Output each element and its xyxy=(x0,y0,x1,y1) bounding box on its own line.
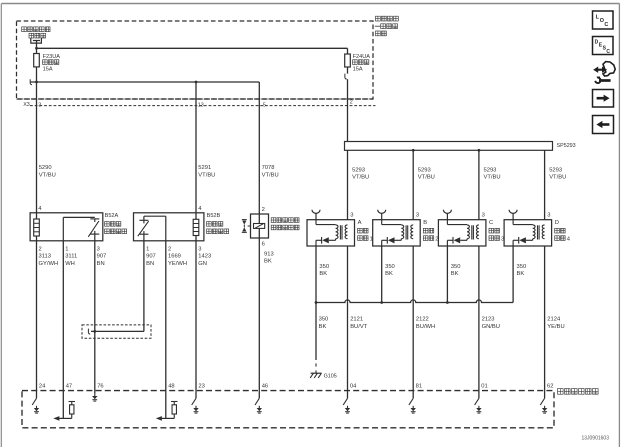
svg-text:BK: BK xyxy=(319,324,327,330)
ECM pin 81 label xyxy=(416,383,422,389)
wire label 5291 VT/BU xyxy=(198,165,215,178)
coil C spark plug xyxy=(443,210,451,220)
oxygen sensor B52A box xyxy=(30,213,103,241)
wire 3111 B52A pin1 to ECM 47 xyxy=(62,241,64,391)
junction dot bus at F23UA xyxy=(35,81,38,84)
coil C diode xyxy=(447,237,460,246)
coil C primary winding xyxy=(477,225,479,239)
svg-text:3: 3 xyxy=(38,103,41,109)
B52A pin 2 label xyxy=(39,247,59,267)
icon next page arrow box xyxy=(593,90,614,108)
ECM pin 46 driver switch to ground xyxy=(255,391,262,414)
ECM pin 62 label xyxy=(547,383,553,389)
fuse F24UA label xyxy=(353,54,371,72)
B52B pin 2 label xyxy=(168,247,187,267)
svg-text:350: 350 xyxy=(319,264,329,270)
svg-text:VT/BU: VT/BU xyxy=(484,174,501,180)
icon LOC box xyxy=(593,11,614,29)
svg-text:15A: 15A xyxy=(353,67,363,73)
svg-text:24: 24 xyxy=(39,383,46,389)
ECM pin 47 input pullup and signal arrow xyxy=(53,391,75,421)
B52B signal inner wire pin2 xyxy=(144,216,166,241)
coil D primary winding xyxy=(542,225,544,239)
ECM pin 04 driver switch to ground xyxy=(343,391,350,414)
fuse F24UA xyxy=(345,54,351,67)
svg-text:15A: 15A xyxy=(43,67,53,73)
wire label 350 BK coil B xyxy=(385,264,395,277)
connector label X3 xyxy=(23,102,30,108)
svg-text:81: 81 xyxy=(416,383,422,389)
pin 2 label valve xyxy=(262,207,265,213)
svg-text:23: 23 xyxy=(198,383,204,389)
svg-text:BU/WH: BU/WH xyxy=(416,324,435,330)
svg-text:350: 350 xyxy=(385,264,395,270)
svg-text:6: 6 xyxy=(262,242,265,248)
valve actuator symbol xyxy=(242,220,251,233)
coil C pin 3 label xyxy=(482,213,485,219)
coil B spark plug xyxy=(378,210,386,220)
icon troubleshooting tool xyxy=(593,62,615,83)
fuse block bus wire xyxy=(30,81,259,83)
splice pack SP5293 bus bar xyxy=(345,142,553,151)
wire coil A control to ECM xyxy=(347,246,349,391)
svg-text:350: 350 xyxy=(319,317,329,323)
ECM pin 24 label xyxy=(39,383,46,389)
svg-text:13: 13 xyxy=(198,103,204,109)
svg-text:D: D xyxy=(555,220,559,226)
coil C label xyxy=(489,220,504,242)
svg-text:YE/BU: YE/BU xyxy=(547,324,564,330)
wire 5293 SP5293 to coil D pin3 xyxy=(544,150,546,219)
wire label 2123 GN/BU xyxy=(482,317,500,330)
ground G105 symbol xyxy=(310,370,321,378)
svg-text:5293: 5293 xyxy=(418,167,431,173)
svg-text:BK: BK xyxy=(451,271,459,277)
svg-text:C: C xyxy=(489,220,493,226)
svg-text:2122: 2122 xyxy=(416,317,429,323)
B52A heater wire through box xyxy=(36,213,38,241)
svg-text:2: 2 xyxy=(168,247,171,253)
wire 350 BK bus to G105 xyxy=(315,303,317,367)
wire 3113 B52A pin2 to ECM 24 xyxy=(36,241,38,391)
svg-text:47: 47 xyxy=(66,383,72,389)
svg-text:5: 5 xyxy=(263,103,266,109)
coil A core xyxy=(340,225,342,239)
ECM pin 24 driver switch to ground xyxy=(32,391,39,414)
svg-text:4: 4 xyxy=(567,236,571,242)
wire 1669 B52B pin2 to ECM 48 xyxy=(165,241,167,391)
wire 350 BK coil C to ground bus xyxy=(446,246,448,303)
pin 4 label B52B xyxy=(198,206,202,212)
X3 pin 13 xyxy=(198,103,204,109)
svg-text:907: 907 xyxy=(97,254,107,260)
valve pin 6 label xyxy=(262,242,265,248)
svg-text:76: 76 xyxy=(97,383,103,389)
svg-text:F24UA: F24UA xyxy=(353,54,371,60)
ECM pin 48 label xyxy=(168,383,174,389)
splice terminal hook xyxy=(88,329,90,334)
junction dot splice 907 xyxy=(93,330,96,333)
B52A signal inner wire pin1 xyxy=(63,217,95,240)
svg-text:04: 04 xyxy=(350,383,357,389)
coil A secondary winding xyxy=(316,220,338,241)
junction dot ground bus coil C xyxy=(446,301,449,304)
wire 907 B52B pin1 to splice xyxy=(91,241,144,332)
wire label 2124 YE/BU xyxy=(547,317,564,330)
B52B label xyxy=(207,213,229,234)
svg-text:O: O xyxy=(600,18,604,24)
wire label 5290 VT/BU xyxy=(39,165,56,178)
coil D pin 3 label xyxy=(547,213,550,219)
svg-text:3111: 3111 xyxy=(65,254,77,260)
wire to fuse F24UA xyxy=(347,48,349,54)
coil D spark plug xyxy=(509,210,517,220)
svg-text:5293: 5293 xyxy=(549,167,562,173)
svg-text:01: 01 xyxy=(481,383,487,389)
B52B heater element xyxy=(193,219,199,235)
B52A pin 3 label xyxy=(97,247,107,267)
coil D label xyxy=(555,220,571,242)
wire label 2121 BU/VT xyxy=(350,317,368,330)
ignition coil D box xyxy=(504,220,551,246)
svg-text:3: 3 xyxy=(97,247,100,253)
B52A heater element xyxy=(34,219,40,236)
B52B pin 3 label xyxy=(198,247,211,267)
svg-text:3: 3 xyxy=(198,247,201,253)
junction dot ground bus coil B xyxy=(380,301,383,304)
wire label 2122 BU/WH xyxy=(416,317,435,330)
wire label 350 BK coil D xyxy=(517,264,527,277)
svg-text:2: 2 xyxy=(39,247,42,253)
coil A pin 3 label xyxy=(350,213,353,219)
wire label 5293 VT/BU coil A xyxy=(352,167,369,180)
wire F24UA down xyxy=(347,67,349,74)
B52B heater wire through box xyxy=(195,213,197,241)
svg-text:VT/BU: VT/BU xyxy=(39,172,56,178)
coil C secondary winding xyxy=(447,220,469,241)
ECM pin 23 driver switch to ground xyxy=(192,391,199,414)
wire 913 BK valve to ECM pin46 xyxy=(258,238,260,391)
coil D diode xyxy=(513,237,526,246)
ECM pin 01 label xyxy=(481,383,487,389)
X3 pin 3 xyxy=(38,103,41,109)
svg-text:3113: 3113 xyxy=(39,254,51,260)
engine control module dashed box xyxy=(22,391,554,428)
svg-text:3: 3 xyxy=(482,213,485,219)
svg-text:1: 1 xyxy=(65,247,68,253)
coil A primary winding xyxy=(345,225,347,239)
coil B diode xyxy=(382,237,395,246)
svg-text:2121: 2121 xyxy=(350,317,363,323)
coil B label xyxy=(423,220,438,242)
B52A label xyxy=(105,213,127,234)
svg-text:GN/BU: GN/BU xyxy=(482,324,500,330)
svg-text:YE/WH: YE/WH xyxy=(168,261,187,267)
fuse block label 保险丝盒—发动机罩下 xyxy=(375,16,399,36)
pin 4 label B52A xyxy=(38,206,42,212)
svg-text:C: C xyxy=(606,49,610,55)
valve solenoid element xyxy=(254,224,265,229)
wire 5291 branch down xyxy=(195,82,197,213)
svg-text:2123: 2123 xyxy=(482,317,495,323)
svg-text:BN: BN xyxy=(146,261,154,267)
page left border xyxy=(0,4,2,447)
svg-text:BN: BN xyxy=(97,261,105,267)
svg-text:3: 3 xyxy=(547,213,550,219)
bus terminal hook under F24UA xyxy=(345,74,347,79)
intake manifold solenoid valve box xyxy=(251,214,269,238)
ECM pin 04 label xyxy=(350,383,357,389)
svg-text:62: 62 xyxy=(547,383,553,389)
svg-text:1669: 1669 xyxy=(168,254,181,260)
wire 1423 B52B pin3 to ECM 23 xyxy=(195,241,197,391)
ECM label 发动机控制模块 xyxy=(558,389,599,395)
wire 5293 SP5293 to coil A pin3 xyxy=(347,150,349,219)
svg-text:350: 350 xyxy=(451,264,461,270)
valve wire through box xyxy=(258,214,260,238)
junction dot ground bus coil A xyxy=(315,301,318,304)
wire F23UA to bus xyxy=(36,67,38,82)
fuse F23UA xyxy=(34,54,40,67)
svg-text:VT/BU: VT/BU xyxy=(262,172,279,178)
wire 5290 X3 to sensor B52A pin4 xyxy=(36,82,38,213)
wire label 7078 VT/BU xyxy=(262,165,279,178)
engine control relay label 发动机控制/继电器 xyxy=(22,27,50,38)
svg-text:5293: 5293 xyxy=(352,167,365,173)
wire 7078 bus corner to valve xyxy=(258,82,260,214)
svg-text:B52A: B52A xyxy=(105,213,119,219)
connector X3 lower dashed line xyxy=(30,105,376,107)
svg-text:X3: X3 xyxy=(23,102,30,108)
connector X3 upper dashed line xyxy=(17,98,374,100)
wire 5293 SP5293 to coil B pin3 xyxy=(412,150,414,219)
svg-text:G105: G105 xyxy=(324,373,337,379)
wire 5293 SP5293 to coil C pin3 xyxy=(478,150,480,219)
icon DESC box xyxy=(593,37,614,55)
wire relay output to fuse F24UA xyxy=(37,47,348,49)
wire label 5293 VT/BU coil D xyxy=(549,167,566,180)
svg-text:VT/BU: VT/BU xyxy=(352,174,369,180)
coil A spark plug xyxy=(312,210,320,220)
coil A diode xyxy=(316,237,329,246)
svg-text:WH: WH xyxy=(65,261,75,267)
svg-text:GN: GN xyxy=(198,261,207,267)
svg-text:2: 2 xyxy=(350,100,353,106)
wire 350 BK coil A to ground bus xyxy=(315,246,317,303)
svg-text:350: 350 xyxy=(517,264,527,270)
svg-text:2124: 2124 xyxy=(547,317,561,323)
bus terminal hook left xyxy=(30,79,32,84)
coil D secondary winding xyxy=(513,220,535,241)
ECM pin 81 driver switch to ground xyxy=(409,391,416,414)
icon previous page arrow box xyxy=(593,116,614,134)
coil B secondary winding xyxy=(382,220,404,241)
ignition coil A box xyxy=(307,220,355,246)
svg-text:B52B: B52B xyxy=(207,213,221,219)
svg-text:SP5293: SP5293 xyxy=(557,143,576,149)
coil B core xyxy=(406,225,408,239)
junction dot bus at pin13 branch xyxy=(195,81,198,84)
coil B pin 3 label xyxy=(416,213,419,219)
oxygen sensor B52B box xyxy=(134,213,204,241)
svg-text:4: 4 xyxy=(198,206,202,212)
svg-text:1: 1 xyxy=(146,247,149,253)
ignition coil C box xyxy=(438,220,486,246)
wire label 350 BK coil A xyxy=(319,264,329,277)
junction dot SP5293 out C xyxy=(478,149,481,152)
wire coil B control to ECM xyxy=(412,246,414,391)
svg-text:C: C xyxy=(604,22,608,28)
coil A label xyxy=(358,220,373,242)
ground bus wire 350 BK xyxy=(316,300,513,303)
page top border xyxy=(2,3,620,5)
ECM pin 23 label xyxy=(198,383,204,389)
wire label 350 BK coil C xyxy=(451,264,461,277)
svg-text:BK: BK xyxy=(385,271,393,277)
document number 13J0901603 xyxy=(581,436,609,442)
ECM pin 48 input pullup and signal arrow xyxy=(156,391,178,421)
coil C core xyxy=(472,225,474,239)
svg-text:48: 48 xyxy=(168,383,174,389)
svg-text:VT/BU: VT/BU xyxy=(549,174,566,180)
svg-text:4: 4 xyxy=(38,206,42,212)
ECM pin 01 driver switch to ground xyxy=(475,391,482,414)
B52B pin 1 label xyxy=(146,247,156,267)
SP5293 label xyxy=(557,143,576,149)
svg-text:913: 913 xyxy=(264,252,274,258)
svg-text:5290: 5290 xyxy=(39,165,52,171)
svg-text:BK: BK xyxy=(319,271,327,277)
svg-text:VT/BU: VT/BU xyxy=(418,174,435,180)
svg-text:46: 46 xyxy=(262,383,268,389)
ECM pin 46 label xyxy=(262,383,268,389)
svg-text:5291: 5291 xyxy=(198,165,211,171)
B52A pin 1 label xyxy=(65,247,77,267)
svg-text:VT/BU: VT/BU xyxy=(198,172,215,178)
coil D core xyxy=(538,225,540,239)
svg-text:BK: BK xyxy=(517,271,525,277)
wire 350 BK coil B to ground bus xyxy=(381,246,383,303)
splice joint dashed box xyxy=(82,325,151,338)
relay K20 contact symbol xyxy=(31,38,42,54)
wire 907 B52A pin3 to ECM 76 xyxy=(94,241,96,391)
ignition coil B box xyxy=(373,220,421,246)
svg-text:F23UA: F23UA xyxy=(43,54,61,60)
svg-text:BU/VT: BU/VT xyxy=(350,324,368,330)
fuse F23UA label xyxy=(43,54,61,72)
svg-text:3: 3 xyxy=(350,213,353,219)
wire 350 BK coil D to ground bus xyxy=(512,246,514,303)
X3 pin 5 xyxy=(263,103,266,109)
svg-text:907: 907 xyxy=(146,254,156,260)
wire coil C control to ECM xyxy=(478,246,480,391)
ECM pin 76 label xyxy=(97,383,103,389)
ground G105 label xyxy=(324,373,337,379)
coil B primary winding xyxy=(411,225,413,239)
wire label 913 BK xyxy=(264,252,274,265)
svg-text:3: 3 xyxy=(416,213,419,219)
svg-text:1423: 1423 xyxy=(198,254,211,260)
wire F24UA hook to X3 pin 2 xyxy=(347,79,349,141)
svg-text:GY/WH: GY/WH xyxy=(39,261,59,267)
page right border xyxy=(618,4,620,447)
svg-text:BK: BK xyxy=(264,259,272,265)
svg-text:5293: 5293 xyxy=(484,167,497,173)
wire label 5293 VT/BU coil B xyxy=(418,167,435,180)
ECM pin 76 internal ground xyxy=(92,391,97,402)
svg-text:B: B xyxy=(423,220,427,226)
svg-text:A: A xyxy=(358,220,362,226)
svg-text:13J0901603: 13J0901603 xyxy=(581,436,609,442)
wire label 350 BK to ground xyxy=(319,317,329,330)
B52A sensing cell xyxy=(88,219,99,241)
ECM pin 62 driver switch to ground xyxy=(540,391,547,414)
svg-text:7078: 7078 xyxy=(262,165,275,171)
junction dot SP5293 out B xyxy=(412,149,415,152)
X3 pin 2 xyxy=(350,100,353,106)
wire coil D control to ECM xyxy=(544,246,546,391)
B52B sensing cell xyxy=(138,220,149,241)
svg-text:2: 2 xyxy=(262,207,265,213)
wire label 5293 VT/BU coil C xyxy=(484,167,501,180)
junction dot relay output xyxy=(35,47,38,50)
underhood fuse block dashed enclosure xyxy=(17,21,374,99)
ECM pin 47 label xyxy=(66,383,72,389)
valve label 可变进气道/歧管电磁阀 xyxy=(271,218,299,230)
